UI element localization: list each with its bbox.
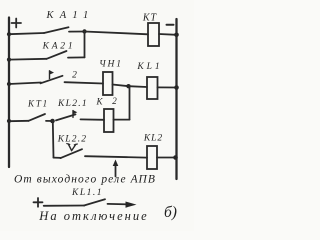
label KA11	[46, 10, 95, 21]
time-delay flag on KL2.1 contact	[73, 110, 77, 117]
node: row2 tap on left bus	[7, 58, 11, 62]
svg-text:КL1: КL1	[136, 62, 162, 72]
label KL2.2 (contact)	[57, 135, 87, 145]
label KL2.1 (contact)	[57, 99, 88, 109]
plus terminal (trip line)	[34, 198, 43, 207]
fork symbol on KL2.2 contact	[67, 144, 78, 151]
wire riser row4 to row3 node	[129, 86, 131, 119]
contact KT.2 time-delay blade	[41, 76, 63, 84]
coil ChN2	[104, 109, 114, 132]
contact KL2.1 blade	[56, 114, 76, 120]
svg-text:КL2.1: КL2.1	[57, 99, 88, 109]
time-delay flag on KT.2 contact	[50, 70, 55, 78]
wire riser row4 node down to row5	[52, 121, 55, 158]
wire row1 mid	[69, 31, 85, 33]
node: junction row1/row2	[82, 29, 86, 33]
wire row2 right	[68, 56, 85, 58]
label 2 (contact KT.2)	[72, 71, 77, 81]
svg-text:КА11: КА11	[46, 10, 95, 21]
label ChN1 (coil)	[99, 60, 123, 70]
svg-text:КL1.1: КL1.1	[71, 188, 103, 198]
coil ChN1	[103, 72, 113, 95]
wire row3 to coil ChN1	[65, 82, 104, 83]
relay coil KL2	[147, 146, 157, 169]
wire row3 left	[9, 83, 41, 85]
svg-text:На отключение: На отключение	[38, 209, 148, 223]
right bus (-)	[175, 19, 177, 179]
wire riser row2 to row1	[84, 32, 86, 58]
contact KT1 (NO)	[29, 114, 45, 121]
label KA21	[42, 42, 76, 52]
wire to row4 node	[46, 120, 53, 122]
node: row1 tap on left bus	[7, 32, 11, 36]
contact KL2.2 blade	[61, 149, 83, 158]
wire ChN2 right	[114, 119, 130, 121]
wire KT to right bus	[159, 33, 177, 36]
node: row4 tap on left bus	[7, 119, 11, 123]
node: row1 on right bus	[174, 33, 179, 38]
wire row5 to coil KL2	[85, 156, 147, 157]
svg-text:От выходного реле АПВ: От выходного реле АПВ	[14, 174, 156, 186]
label KT (coil)	[142, 13, 158, 24]
wire row4 left	[9, 120, 29, 122]
wire row4 to coil ChN2	[81, 118, 105, 120]
wire trip line left	[44, 205, 85, 207]
svg-text:КL2.2: КL2.2	[57, 135, 87, 145]
label ChN2 (coil)	[96, 96, 118, 107]
svg-text:2: 2	[72, 71, 77, 81]
wire row1 left	[9, 33, 44, 34]
svg-text:К: К	[96, 97, 104, 107]
note: from APV output relay	[14, 174, 156, 186]
wire ChN1 to node	[113, 85, 129, 87]
svg-text:б): б)	[164, 204, 177, 221]
wire row2 left	[9, 58, 47, 61]
wire row1 to coil KT	[85, 32, 149, 35]
label KL1 (coil)	[136, 62, 162, 72]
svg-text:КА21: КА21	[42, 42, 76, 52]
wire KL1 to right bus	[158, 86, 177, 88]
wire row5 left stub	[54, 157, 62, 159]
wire trip line with arrow to trip	[108, 202, 137, 208]
contact KA11 (NO)	[44, 27, 69, 33]
label KT1 (contact)	[27, 99, 49, 109]
figure label b)	[164, 204, 177, 221]
contact KA21 (NO)	[47, 51, 67, 59]
minus terminal	[167, 24, 174, 26]
label KL1.1 (contact)	[71, 188, 103, 198]
label KL2 (coil)	[143, 134, 163, 144]
node: row3 tap on left bus	[7, 82, 11, 86]
svg-text:КТ1: КТ1	[27, 99, 49, 109]
wire node to coil KL1	[129, 85, 148, 88]
svg-text:КТ: КТ	[142, 13, 158, 24]
node: row3 on right bus	[174, 85, 179, 90]
plus terminal	[12, 19, 22, 28]
node: row4 split junction	[50, 119, 55, 124]
arrow from APV output relay	[113, 160, 119, 177]
contact KL1.1 (NO)	[84, 199, 105, 205]
wire KL2 to right bus	[157, 157, 176, 159]
relay coil KT	[148, 23, 159, 46]
node: row3/row4 riser junction	[126, 84, 130, 88]
svg-text:КL2: КL2	[143, 134, 163, 144]
relay coil KL1	[147, 77, 158, 99]
svg-text:2: 2	[112, 96, 117, 106]
note: to trip	[38, 209, 148, 223]
node: row5 on right bus	[173, 155, 178, 160]
svg-text:ЧН1: ЧН1	[99, 60, 123, 70]
left bus (+)	[8, 18, 10, 168]
